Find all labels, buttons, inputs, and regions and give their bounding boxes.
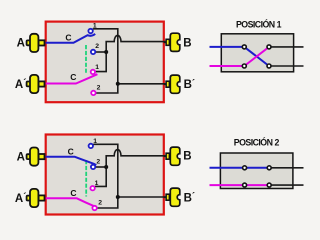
pole 1 common wire C (blue wiper) (bottom) [46, 157, 96, 166]
svg-text:B: B [183, 151, 191, 163]
wire: contact 2 stub to junction J1 (bottom) [95, 166, 106, 168]
switch enclosure box (position 1 circuit) [46, 22, 164, 103]
junction J1 (bottom) [104, 165, 108, 169]
wire W3: junction J1 down then left to contact 1&#180; (bottom) [95, 167, 106, 186]
panel box (position 1) [221, 34, 293, 72]
connector A (bottom) [27, 148, 45, 166]
contact 2 (pole 1) (bottom) [91, 165, 95, 169]
mechanical link (green dashed) [85, 45, 87, 73]
svg-text:2: 2 [95, 43, 99, 50]
contact 1&#180; (pole 2) [91, 70, 95, 74]
contact 1 (pole 1) (bottom) [89, 144, 93, 148]
wire W4: contact 2&#180; right then up to junction J2 (bottom) [97, 197, 118, 208]
pole 1 common wire C (blue wiper) [46, 34, 95, 43]
junction J1 [104, 50, 108, 54]
contact 2&#180; (pole 2) (bottom) [92, 206, 96, 210]
contact 1&#180; (pole 2) (bottom) [90, 186, 94, 190]
crossover wire A&#180; to B (magenta, panel 1) [244, 47, 269, 66]
svg-text:C: C [68, 146, 74, 156]
pole 2 common wire C (magenta wiper) [46, 74, 98, 83]
wire W2: junction J1 up then right to B, hop over riser [106, 35, 166, 52]
svg-text:1: 1 [95, 64, 99, 71]
svg-text:C: C [65, 32, 71, 42]
connector B [164, 33, 180, 51]
output wire B (black, panel 2) [269, 167, 303, 169]
wire W1: contact 1 to riser down to junction J2 [92, 29, 118, 84]
through wire A to B (blue, panel 2) [210, 167, 270, 169]
switch enclosure box (position 2 circuit) [46, 135, 164, 215]
wire W5: junction J2 to connector B&#180; (bottom) [118, 196, 166, 198]
terminal right-top (panel 1) [267, 45, 271, 49]
panel box (position 2) [220, 153, 293, 189]
svg-text:C: C [70, 188, 76, 198]
output wire B&#180; (black, panel 2) [269, 184, 303, 186]
connector B&#180; [164, 75, 180, 93]
input wire A&#180; (magenta, panel 1) [210, 65, 245, 67]
connector B&#180; (bottom) [164, 188, 180, 206]
connector A [27, 34, 45, 52]
wire W3: junction J1 down then left to contact 1&#180; [95, 52, 106, 72]
svg-text:A: A [17, 151, 25, 163]
svg-text:C: C [70, 72, 76, 82]
connector A&#180; [27, 75, 45, 93]
crossover wire A to B&#180; (blue, panel 1) [244, 47, 269, 66]
connector A&#180; (bottom) [27, 189, 45, 207]
connector B (bottom) [164, 147, 180, 165]
terminal right-bottom (panel 2) [267, 183, 271, 187]
terminal left-top (panel 2) [243, 166, 247, 170]
output wire B&#180; (black, panel 1) [269, 65, 304, 67]
mechanical link (green dashed) (bottom) [85, 160, 87, 197]
terminal right-bottom (panel 1) [267, 64, 271, 68]
contact 2&#180; (pole 2) [91, 91, 95, 95]
through wire A&#180; to B&#180; (magenta, panel 2) [210, 184, 270, 186]
terminal left-top (panel 1) [242, 45, 246, 49]
svg-text:POSICIÓN 2: POSICIÓN 2 [234, 137, 280, 148]
svg-text:2: 2 [98, 199, 102, 206]
pole 2 common wire C (magenta wiper) (bottom) [46, 198, 96, 208]
svg-text:POSICIÓN 1: POSICIÓN 1 [236, 19, 282, 30]
wire W1: contact 1 to riser down to junction J2 (bottom) [92, 144, 118, 197]
terminal left-bottom (panel 2) [243, 183, 247, 187]
svg-text:1: 1 [95, 180, 99, 187]
terminal right-top (panel 2) [267, 166, 271, 170]
junction J2 (bottom) [116, 195, 120, 199]
svg-text:1: 1 [93, 22, 97, 29]
wire W5: junction J2 to connector B&#180; [118, 83, 166, 85]
wire W4: contact 2&#180; right then up to junction J2 [96, 84, 118, 93]
contact 1 (pole 1) [88, 29, 92, 33]
junction J2 [116, 82, 120, 86]
wire W2: junction J1 up then right to B, hop over riser (bottom) [106, 150, 166, 167]
contact 2 (pole 1) [91, 50, 95, 54]
svg-text:B: B [183, 37, 191, 49]
input wire A (blue, panel 1) [210, 46, 245, 48]
svg-text:2: 2 [96, 158, 100, 165]
wire: contact 2 stub to junction J1 [95, 51, 106, 53]
svg-text:A: A [17, 38, 25, 50]
output wire B (black, panel 1) [269, 46, 304, 48]
svg-text:2: 2 [97, 85, 101, 92]
svg-text:1: 1 [93, 138, 97, 145]
terminal left-bottom (panel 1) [242, 64, 246, 68]
